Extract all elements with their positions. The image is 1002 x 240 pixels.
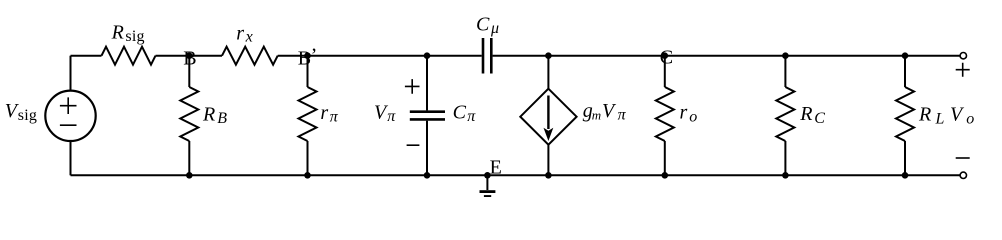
minus mark in V_sig [60, 124, 77, 126]
svg-text:C: C [476, 14, 490, 36]
svg-text:x: x [245, 29, 253, 46]
ground at node E [486, 175, 488, 190]
wire Vsig bottom stub [70, 141, 72, 175]
svg-text:r: r [320, 102, 328, 124]
wire top rail left segment [71, 55, 102, 57]
wire R_L bottom stub [904, 141, 906, 175]
wire top rail B-prime to C_mu [278, 55, 482, 57]
svg-text:R: R [799, 103, 812, 125]
svg-text:E: E [490, 156, 502, 178]
wire C_pi top stub [426, 56, 428, 111]
wire current source bottom stub [547, 145, 549, 176]
minus mark V_pi [407, 144, 420, 146]
capacitor C_pi plates [410, 112, 445, 120]
svg-text:π: π [330, 109, 339, 126]
svg-text:’: ’ [311, 45, 318, 67]
node junction dot top x=307.5 [304, 52, 311, 59]
wire r_o bottom stub [664, 141, 666, 175]
svg-text:o: o [689, 108, 697, 125]
svg-text:o: o [966, 110, 974, 127]
plus mark output [956, 63, 970, 77]
capacitor C_mu plates [483, 38, 491, 74]
svg-text:π: π [618, 107, 627, 124]
svg-text:π: π [467, 108, 476, 125]
svg-text:m: m [592, 108, 601, 123]
wire C_pi bottom stub [426, 121, 428, 176]
resistor R_C [776, 87, 794, 141]
wire R_B bottom stub [188, 141, 190, 175]
svg-text:sig: sig [18, 107, 37, 124]
wire top rail C_mu to terminal [493, 55, 960, 57]
resistor R_B [180, 87, 198, 141]
svg-text:C: C [814, 110, 825, 127]
output terminal bottom [960, 172, 966, 178]
wire top rail B segment [156, 55, 223, 57]
svg-text:B: B [217, 110, 227, 127]
plus mark V_pi [405, 79, 420, 94]
node junction dot top x=785.4 [782, 52, 789, 59]
wire R_C bottom stub [784, 141, 786, 175]
wire r_o top stub [664, 56, 666, 87]
node junction dot bottom x=905 [902, 172, 909, 179]
node junction dot bottom x=785.4 [782, 172, 789, 179]
resistor R_sig [102, 47, 156, 65]
svg-text:R: R [202, 103, 215, 125]
svg-text:C: C [453, 102, 467, 124]
svg-text:L: L [935, 110, 945, 127]
node junction dot bottom x=189.3 [186, 172, 193, 179]
svg-text:R: R [111, 22, 124, 44]
svg-text:sig: sig [125, 28, 144, 45]
node junction dot bottom x=548.4 [545, 172, 552, 179]
svg-text:R: R [918, 104, 931, 126]
wire Vsig top stub [70, 56, 72, 91]
svg-text:μ: μ [490, 20, 499, 37]
plus mark in V_sig [60, 63, 970, 158]
current source arrow [544, 96, 554, 142]
node junction dot top x=664.8 [662, 52, 669, 59]
node junction dot bottom x=307.5 [304, 172, 311, 179]
node junction dot bottom x=664.8 [662, 172, 669, 179]
svg-text:π: π [387, 108, 396, 125]
wire current source top stub [547, 56, 549, 89]
wire r_pi bottom stub [307, 141, 309, 175]
node junction dot top x=189.3 [186, 52, 193, 59]
node junction dot bottom x=487.4 [484, 172, 491, 179]
node junction dot top x=548.4 [545, 52, 552, 59]
svg-text:r: r [680, 102, 688, 124]
svg-text:r: r [236, 23, 244, 45]
wire bottom rail [71, 174, 960, 176]
wire R_L top stub [904, 56, 906, 87]
wire R_B top stub [188, 56, 190, 87]
node junction dot bottom x=427 [424, 172, 431, 179]
resistor r_o [656, 87, 674, 141]
output terminal top [960, 53, 966, 59]
dependent current source g_m V_pi diamond [520, 89, 576, 145]
resistor r_x [222, 47, 278, 65]
wire r_pi top stub [307, 56, 309, 87]
wire R_C top stub [784, 56, 786, 87]
minus mark output [956, 157, 970, 159]
node junction dot top x=905 [902, 52, 909, 59]
voltage source V_sig circle [45, 91, 95, 141]
resistor r_pi [299, 87, 317, 141]
resistor R_L [896, 87, 914, 141]
node junction dot top x=427 [424, 52, 431, 59]
